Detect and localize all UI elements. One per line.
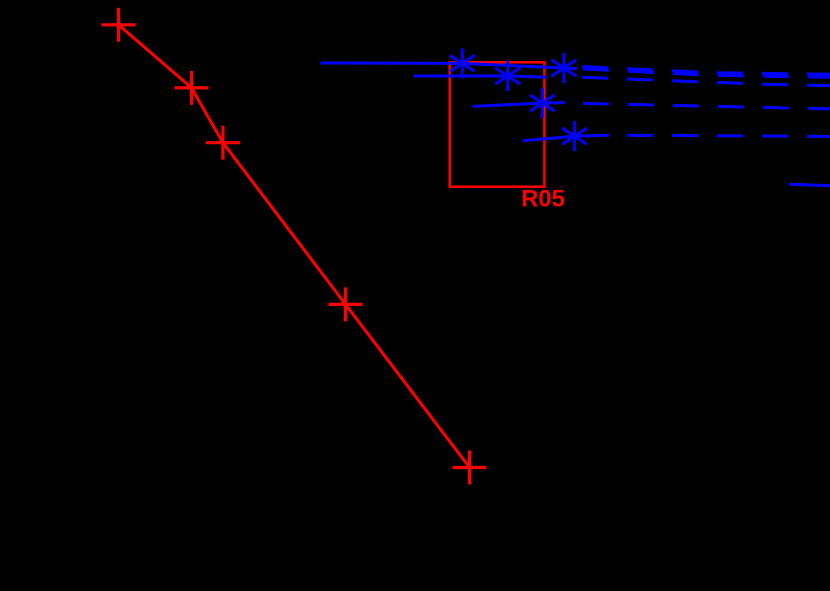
blue solid line L2	[413, 76, 547, 77]
red plus marker P3	[206, 126, 240, 160]
blue solid line L1	[321, 63, 577, 69]
blue dashed line D1b	[583, 69, 830, 77]
blue dashed line D2	[582, 77, 830, 85]
blue star marker C	[551, 53, 576, 83]
red zoom box R05	[450, 62, 545, 186]
red plus marker P1	[102, 8, 136, 42]
red plus marker P5	[453, 451, 487, 485]
blue star marker B	[495, 61, 520, 91]
red plus marker P2	[175, 71, 209, 105]
blue dashed line D3	[583, 103, 830, 109]
blue star marker D	[530, 88, 555, 118]
blue dashed line D1a	[582, 67, 830, 75]
red plus marker P4	[329, 287, 363, 321]
blue dash segment D5	[789, 184, 830, 185]
svg-text:R05: R05	[521, 186, 565, 213]
red series line	[119, 25, 470, 468]
blue star marker E	[562, 121, 587, 151]
blue solid line L4	[522, 135, 609, 140]
blue dashed line D4	[627, 135, 830, 136]
blue star marker A	[450, 48, 475, 78]
blue solid line L3	[473, 103, 565, 107]
